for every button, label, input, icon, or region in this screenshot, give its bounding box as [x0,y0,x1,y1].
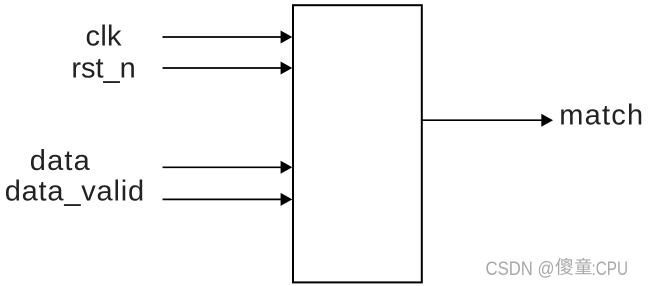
watermark CSDN @傻童:CPU [486,258,629,280]
watermark CSDN highlight [486,259,629,281]
svg-text:clk: clk [86,21,123,53]
module block U1 [293,5,422,282]
pin arrowhead rst_n [281,62,293,75]
svg-text:data_valid: data_valid [5,175,145,207]
svg-text:match: match [559,100,644,132]
pin arrowhead data [281,161,293,174]
wire match [422,119,542,121]
wire rst_n [163,67,284,69]
pin arrowhead data_valid [281,193,293,206]
svg-text::CPU: :CPU [592,258,629,280]
wire data [163,166,284,168]
wire clk [163,36,284,38]
pin arrowhead clk [281,31,293,44]
pin arrowhead match [541,114,553,127]
svg-text:rst_n: rst_n [71,52,135,84]
wire data_valid [163,198,284,200]
svg-text:data: data [30,145,91,177]
svg-text:CSDN @: CSDN @ [486,258,555,280]
